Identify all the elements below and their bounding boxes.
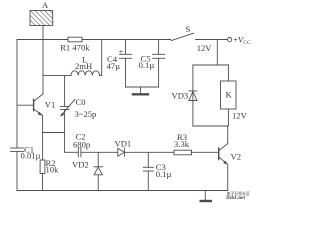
svg-text:12V: 12V [197, 43, 213, 53]
svg-text:S: S [186, 24, 191, 34]
svg-text:VD2: VD2 [72, 160, 89, 170]
svg-text:V1: V1 [45, 100, 56, 110]
svg-text:+: + [119, 47, 124, 57]
svg-text:10k: 10k [46, 165, 60, 175]
svg-text:V2: V2 [231, 152, 242, 162]
svg-text:+VCC: +VCC [233, 34, 251, 46]
svg-text:3.3k: 3.3k [174, 139, 190, 149]
svg-text:C0: C0 [76, 97, 86, 107]
svg-text:K: K [226, 90, 233, 100]
svg-text:3~25p: 3~25p [75, 109, 97, 119]
svg-text:12V: 12V [232, 110, 248, 120]
svg-text:47µ: 47µ [107, 61, 121, 71]
svg-text:0.1µ: 0.1µ [139, 60, 155, 70]
svg-text:A: A [42, 0, 49, 10]
svg-text:R1 470k: R1 470k [60, 42, 90, 52]
svg-text:680p: 680p [73, 140, 90, 150]
svg-text:0.1µ: 0.1µ [156, 169, 172, 179]
svg-text:0.01µ: 0.01µ [21, 151, 41, 161]
svg-text:2mH: 2mH [75, 61, 92, 71]
svg-text:VD3: VD3 [172, 91, 189, 101]
svg-text:Dzkf.net: Dzkf.net [226, 196, 245, 201]
svg-text:VD1: VD1 [115, 139, 132, 149]
